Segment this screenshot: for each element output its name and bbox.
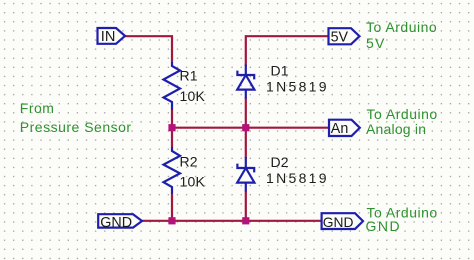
svg-text:IN: IN (101, 29, 116, 45)
svg-text:5V: 5V (366, 35, 386, 51)
flag GND (left) (98, 214, 142, 231)
wire R2 bottom to bottom rail (171, 194, 173, 221)
junction at D2/GND node (242, 217, 249, 224)
diode D2 (schottky, cathode up) (237, 157, 254, 192)
svg-text:1N5819: 1N5819 (266, 170, 329, 186)
svg-text:Analog in: Analog in (366, 121, 426, 137)
flag IN (98, 28, 126, 45)
svg-text:From: From (20, 100, 55, 116)
wire bottom GND rail (142, 220, 322, 222)
svg-text:D1: D1 (271, 62, 289, 78)
svg-text:GND: GND (366, 218, 402, 234)
junction at D1/D2/An node (242, 124, 249, 131)
resistor R1 (164, 62, 181, 110)
svg-text:Pressure Sensor: Pressure Sensor (20, 119, 132, 135)
svg-text:10K: 10K (180, 88, 206, 104)
svg-text:GND: GND (100, 215, 132, 231)
wire D1 bottom to D2 top (245, 98, 247, 159)
svg-text:1N5819: 1N5819 (266, 78, 329, 94)
net label From Pressure Sensor (20, 100, 132, 135)
svg-text:D2: D2 (271, 154, 289, 170)
wire 5V rail: top of D1 column up and right to 5V flag (246, 36, 329, 66)
svg-text:R2: R2 (180, 154, 198, 170)
flag GND (right) (322, 213, 363, 230)
flag 5V (to Arduino 5V) (329, 28, 360, 45)
wire R1 bottom to R2 top through middle junction (171, 110, 173, 147)
net label To Arduino Analog in (366, 106, 438, 137)
svg-text:An: An (331, 121, 349, 137)
net label To Arduino 5V (366, 19, 437, 51)
svg-text:R1: R1 (180, 68, 198, 84)
diode D1 (schottky, cathode up) (237, 65, 254, 99)
svg-text:10K: 10K (180, 174, 206, 190)
wire IN to R1 top (net from IN flag, right then down) (125, 36, 172, 62)
wire D2 bottom to bottom rail (245, 191, 247, 221)
resistor R2 (164, 147, 181, 194)
flag An (to Arduino analog in) (329, 120, 360, 138)
svg-text:To Arduino: To Arduino (367, 106, 438, 122)
svg-text:To Arduino: To Arduino (366, 19, 437, 35)
wire middle rail to An flag (172, 127, 329, 129)
junction at R1/R2/An node (168, 124, 175, 131)
net label To Arduino GND (366, 204, 438, 234)
svg-text:5V: 5V (331, 29, 349, 45)
junction at R2/GND node (168, 217, 175, 224)
svg-text:GND: GND (323, 215, 354, 230)
